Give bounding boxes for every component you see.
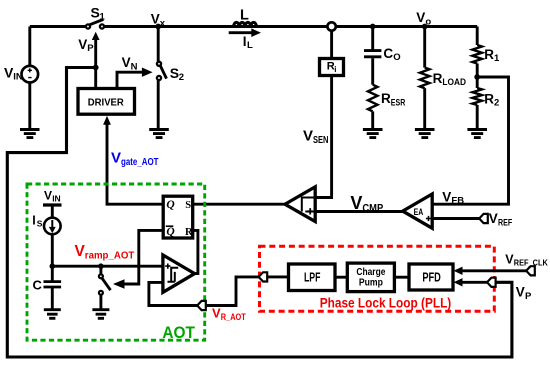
svg-text:AOT: AOT (162, 323, 195, 342)
arrow IL (229, 28, 261, 37)
wire top rail segment 1 (Vin to S1) (30, 25, 86, 28)
svg-text:P: P (87, 43, 94, 54)
svg-text:CMP: CMP (362, 203, 383, 215)
resistor RESR (368, 85, 378, 130)
label VIN (AOT) (44, 189, 61, 204)
wire top rail segment 4 (sense node to R1 corner) (336, 25, 477, 28)
svg-text:x: x (160, 18, 166, 29)
label VFB (442, 189, 464, 206)
ground (RLOAD) (415, 130, 435, 138)
junction VP branch (93, 65, 99, 71)
label Vgate_AOT (blue) (111, 149, 159, 168)
svg-text:R: R (381, 91, 391, 106)
op-amp U4 (AOT comparator) (163, 255, 195, 292)
label Vx (151, 12, 166, 29)
svg-text:L: L (240, 8, 249, 24)
label VREF (489, 211, 513, 228)
svg-text:V: V (44, 189, 52, 203)
svg-text:V: V (489, 211, 498, 226)
svg-text:Q: Q (166, 226, 174, 238)
junction ramp node (50, 263, 56, 269)
capacitor CO (364, 27, 381, 85)
svg-text:ESR: ESR (391, 97, 406, 108)
wire VCMP (EA to comparator) (315, 210, 403, 213)
latch U3 (SR latch) (163, 196, 193, 238)
junction ramp switch (98, 263, 104, 269)
wire VFB (divider to EA) (432, 77, 508, 204)
node Vx (155, 24, 161, 30)
ground (C) (44, 310, 61, 319)
arrow VP (driver to S1) (92, 32, 100, 89)
svg-text:V: V (111, 149, 121, 166)
block Charge Pump (347, 263, 394, 292)
ground (VIN) (20, 130, 40, 138)
svg-text:i: i (334, 65, 336, 74)
ground (ramp switch) (92, 310, 109, 319)
svg-text:EA: EA (414, 207, 424, 218)
svg-text:1: 1 (494, 53, 500, 64)
label S1 (91, 5, 106, 23)
svg-text:V: V (350, 193, 362, 213)
wire VREF_CLK into PFD (454, 267, 527, 275)
wire AOT comparator output to latch R (192, 230, 198, 273)
label IL (243, 34, 253, 51)
svg-text:IN: IN (13, 72, 23, 83)
label VP (bottom right) (516, 285, 532, 302)
label R1 (484, 47, 500, 64)
label VCMP (350, 193, 383, 214)
port VR_AOT (197, 301, 206, 310)
label VN (122, 55, 138, 72)
svg-text:R_AOT: R_AOT (221, 312, 246, 322)
svg-text:PFD: PFD (422, 270, 441, 284)
svg-text:V: V (303, 128, 313, 145)
sense resistor Ri (320, 59, 344, 76)
svg-text:V: V (212, 306, 221, 321)
wire VR_AOT to PLL (206, 277, 259, 306)
svg-text:N: N (131, 61, 138, 72)
wire comparator output to latch S (192, 203, 285, 206)
svg-text:FB: FB (451, 196, 464, 207)
node sense tap (open circle) (327, 22, 335, 30)
label IS (32, 213, 43, 228)
op-amp EA (error amplifier) (403, 194, 433, 228)
svg-text:R: R (433, 71, 443, 86)
svg-text:I: I (32, 213, 35, 227)
svg-text:L: L (247, 40, 253, 51)
svg-text:1: 1 (100, 12, 106, 23)
label RESR (381, 91, 405, 108)
current source IS (44, 218, 61, 282)
svg-text:gate_AOT: gate_AOT (121, 157, 159, 168)
switch S2 (157, 27, 167, 130)
port VP (PLL side) (487, 278, 496, 287)
svg-text:C: C (383, 46, 393, 61)
wire VSEN (Ri to comparator) (315, 76, 331, 198)
svg-text:2: 2 (494, 98, 499, 109)
label RLOAD (433, 71, 467, 88)
label CO (383, 46, 400, 63)
label R2 (484, 91, 499, 108)
port VREF (479, 214, 488, 223)
label Vo (416, 10, 431, 27)
junction Co top (370, 24, 376, 30)
svg-text:REF: REF (498, 217, 512, 228)
svg-text:REF_CLK: REF_CLK (514, 257, 549, 267)
svg-text:P: P (525, 291, 532, 302)
block LPF (289, 264, 336, 291)
svg-text:2: 2 (179, 72, 184, 83)
wire comparator minus input to VR_AOT port (149, 282, 197, 305)
svg-text:S: S (170, 65, 179, 81)
inductor L (234, 22, 257, 26)
svg-text:V: V (122, 55, 131, 70)
resistor R2 (472, 88, 482, 130)
svg-text:O: O (393, 52, 400, 63)
source VIN (22, 27, 39, 130)
svg-text:S: S (185, 200, 191, 211)
svg-text:DRIVER: DRIVER (88, 98, 124, 109)
ground (R2) (467, 130, 487, 138)
green dashed box AOT (27, 184, 205, 340)
driver U1 (78, 89, 135, 115)
svg-text:R: R (185, 227, 193, 238)
wire sense to Ri (330, 31, 333, 59)
wire Charge Pump to PFD (394, 276, 409, 279)
resistor R1 (472, 27, 482, 89)
port VREF_CLK (526, 266, 535, 275)
wire VP into PFD (454, 278, 487, 286)
svg-text:LPF: LPF (304, 270, 321, 284)
svg-text:Phase Lock Loop (PLL): Phase Lock Loop (PLL) (320, 296, 452, 311)
resistor RLOAD (420, 27, 430, 130)
wire Vramp_AOT (to comparator +) (52, 265, 163, 268)
label VIN (4, 65, 23, 83)
label S2 (170, 65, 184, 83)
wire latch Qbar to ramp switch (arrow) (113, 230, 163, 288)
svg-text:V: V (416, 10, 425, 25)
node Vo (422, 24, 428, 30)
ground (RESR) (363, 130, 383, 138)
label VREF_CLK (505, 252, 548, 267)
svg-text:Q: Q (166, 199, 174, 211)
junction R1/R2 (474, 74, 480, 80)
svg-text:R: R (484, 47, 494, 62)
svg-text:V: V (78, 37, 87, 52)
red dashed box PLL (260, 246, 495, 311)
label VR_AOT (red) (212, 306, 246, 322)
wire VP feedback loop (driver to PFD) (7, 68, 512, 358)
capacitor C (44, 282, 62, 310)
svg-text:C: C (33, 278, 43, 293)
wire VREF to EA (432, 217, 479, 220)
svg-text:IN: IN (52, 193, 61, 203)
comparator U2 (PWM comparator with hysteresis) (285, 187, 315, 222)
label VP (78, 37, 94, 54)
svg-text:SEN: SEN (313, 135, 329, 146)
svg-text:I: I (243, 34, 247, 49)
switch S1 (86, 19, 104, 28)
supply VIN (AOT) (43, 205, 62, 218)
svg-text:V: V (516, 285, 525, 300)
svg-text:V: V (442, 189, 451, 204)
ground (S2) (149, 130, 169, 138)
svg-text:LOAD: LOAD (442, 77, 466, 88)
block PFD (409, 264, 453, 290)
svg-text:S: S (37, 218, 43, 228)
port PLL output (259, 272, 268, 281)
switch ramp reset (99, 266, 111, 310)
svg-text:R: R (484, 91, 494, 106)
arrow VN (driver to S2) (117, 68, 153, 89)
wire LPF to Charge Pump (335, 276, 347, 279)
label VSEN (303, 128, 329, 146)
wire Vgate_AOT (latch Q to driver) (103, 116, 163, 204)
svg-text:V: V (151, 12, 160, 27)
wire port to LPF (267, 275, 288, 278)
wire top rail segment 2 (S1 to L) (105, 25, 328, 28)
svg-text:o: o (425, 16, 431, 27)
svg-text:ramp_AOT: ramp_AOT (85, 250, 135, 261)
svg-text:S: S (91, 5, 100, 21)
svg-text:Pump: Pump (359, 277, 383, 289)
label Vramp_AOT (red) (75, 243, 135, 262)
